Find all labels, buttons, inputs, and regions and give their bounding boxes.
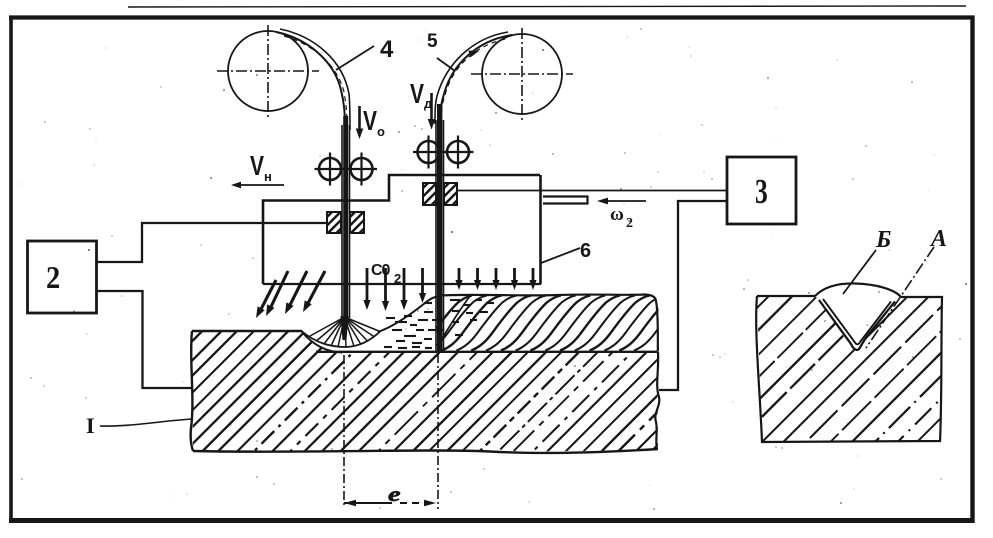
dimension e line	[344, 502, 392, 504]
label B leader	[843, 250, 876, 294]
label A axis (dash-dot)	[866, 247, 934, 348]
label 4 leader	[336, 46, 374, 70]
wire spool right	[482, 34, 562, 114]
wire spool left	[228, 31, 308, 111]
svg-text:3: 3	[755, 172, 768, 211]
label Vo with down arrow	[358, 106, 361, 131]
svg-text:2: 2	[394, 271, 401, 286]
V-groove outer line	[819, 300, 895, 350]
gas flow arrows (vertical)	[366, 268, 369, 304]
label 5 leader	[437, 58, 455, 71]
feed direction arrowhead on wire 5 curve	[468, 51, 479, 58]
wire: box 3 to workpiece right side	[659, 201, 727, 390]
svg-text:2: 2	[46, 261, 60, 296]
contact tip blocks on wire 5	[423, 183, 436, 205]
electrode wire 5 (right), curve from spool	[440, 35, 512, 124]
detail block outline	[756, 296, 942, 442]
wire 4 vertical body	[341, 125, 343, 318]
outer thin top scan line	[128, 6, 966, 7]
chamber 6 right wall	[539, 175, 542, 284]
arc core	[341, 316, 349, 340]
label 6 leader	[541, 248, 580, 263]
svg-text:A: A	[929, 226, 947, 252]
workpiece 1 outline	[191, 331, 193, 451]
svg-text:V: V	[363, 106, 377, 137]
label 1 leader	[100, 419, 192, 426]
svg-text:Б: Б	[875, 227, 891, 253]
CO2 flow arrow into pipe	[603, 200, 646, 202]
pool/solid boundary	[438, 296, 470, 345]
weld crater outer curve	[302, 332, 342, 353]
weld crater surface	[301, 331, 381, 348]
gas inlet pipe into chamber	[543, 197, 588, 204]
wire 4 axis (dash-dot)	[343, 355, 345, 507]
wire: box 2 to workpiece	[97, 291, 193, 388]
svg-text:I: I	[86, 413, 95, 438]
svg-text:5: 5	[427, 31, 438, 52]
chamber 6 top/left walls	[263, 175, 540, 284]
wire: box 2 to contact tip of wire 4	[97, 223, 328, 262]
welding arc fan	[310, 317, 345, 336]
svg-text:н: н	[264, 169, 272, 184]
gas/power source box 3	[727, 157, 796, 224]
scan speckle	[626, 36, 627, 37]
wire 5 axis (dash-dot)	[437, 354, 439, 509]
fusion line under bead	[316, 351, 657, 353]
chamber 6 bottom edge	[263, 283, 541, 285]
feed rollers of wire 5	[418, 141, 440, 163]
power source box 2	[28, 241, 97, 313]
feed rollers of wire 4	[319, 158, 341, 180]
svg-text:6: 6	[580, 240, 591, 262]
weld cap (view B)	[815, 283, 901, 297]
svg-text:4: 4	[380, 36, 394, 63]
contact tip blocks on wire 4	[327, 212, 341, 233]
line: box 3 to contact tip of wire 5	[457, 190, 727, 192]
weld bead top edge	[440, 295, 658, 352]
svg-text:e: e	[388, 483, 401, 506]
wire 5 vertical body	[435, 120, 437, 352]
electrode wire 4 (left), curve from spool	[276, 32, 345, 130]
V-groove inner line	[823, 299, 891, 344]
svg-text:2: 2	[626, 216, 633, 231]
gas flow arrows (slanted, escaping left)	[259, 280, 276, 313]
border frame	[9, 15, 975, 19]
svg-text:V: V	[250, 151, 264, 182]
svg-text:C0: C0	[371, 262, 391, 279]
svg-text:o: o	[377, 124, 385, 139]
pool surface curve	[378, 296, 440, 332]
svg-text:V: V	[410, 79, 424, 110]
svg-text:ω: ω	[610, 204, 624, 225]
molten pool dashes	[386, 317, 395, 319]
